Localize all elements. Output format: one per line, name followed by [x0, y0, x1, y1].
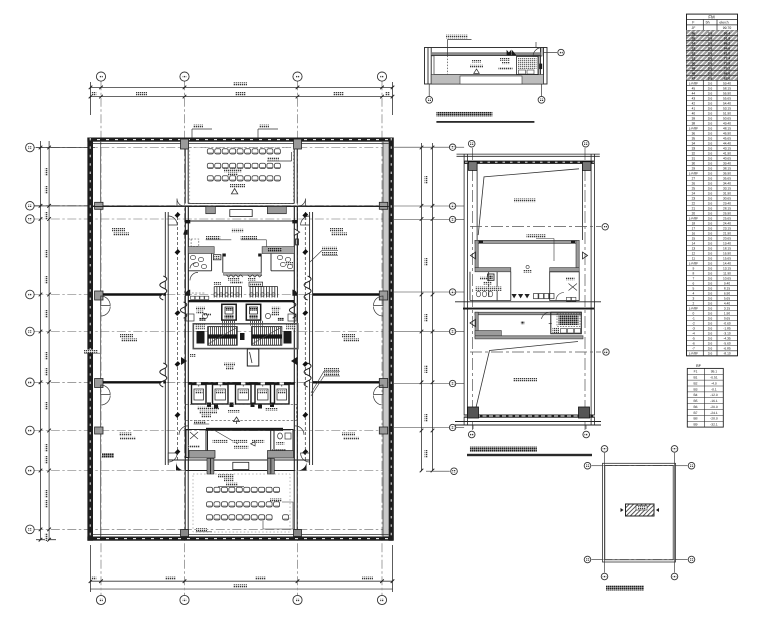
- svg-text:14: 14: [692, 242, 696, 246]
- svg-text:20.65: 20.65: [723, 237, 731, 241]
- toilet zone right room: [261, 254, 294, 273]
- leader label above wall 1: [191, 129, 193, 138]
- middle plan outer frame: [457, 154, 600, 425]
- bottom core center label3: [252, 439, 265, 442]
- svg-text:L-F/8F: L-F/8F: [689, 81, 698, 85]
- elevator lobby center shaft: [247, 349, 258, 366]
- svg-text:99.1: 99.1: [711, 370, 718, 374]
- office area label: [112, 228, 125, 231]
- svg-text:3.6: 3.6: [708, 227, 713, 231]
- svg-text:3.6: 3.6: [708, 121, 713, 125]
- svg-text:39.40: 39.40: [723, 161, 731, 165]
- grid bubble A-3 top: [293, 72, 302, 81]
- section3 small dark box: [488, 274, 494, 280]
- dark door pies flanking stalls: [185, 290, 190, 296]
- label with leader top right: [267, 157, 279, 160]
- wing door arcs upper: [168, 216, 309, 462]
- middle plan bubble bottom left: [468, 431, 475, 438]
- gray U-band left: [188, 247, 214, 254]
- door arc top-right plan: [533, 47, 542, 56]
- svg-text:9.40: 9.40: [724, 282, 730, 286]
- top-right plan top gray wall: [431, 52, 540, 56]
- section4 right detail room: [551, 312, 582, 334]
- section2 gray walls: [475, 240, 579, 272]
- svg-text:29.40: 29.40: [723, 201, 731, 205]
- small boxes row bottom-left: [191, 296, 209, 299]
- party wall right y294: [313, 293, 379, 295]
- svg-text:66.6: 66.6: [724, 72, 731, 76]
- middle plan bubble left: [449, 203, 455, 209]
- corridor label 1: [197, 407, 219, 410]
- svg-text:-6: -6: [692, 342, 695, 346]
- corridor label left: [213, 282, 221, 285]
- svg-text:3.6: 3.6: [708, 307, 713, 311]
- svg-text:-0.60: -0.60: [723, 322, 730, 326]
- svg-text:F1: F1: [694, 370, 698, 374]
- grid bubble B-2 left: [26, 202, 35, 211]
- stage screen rect: [230, 210, 252, 217]
- svg-text:39: 39: [692, 116, 696, 120]
- svg-text:3.6: 3.6: [708, 106, 713, 110]
- svg-text:47: 47: [692, 77, 696, 81]
- top-right bottom gray band: [431, 75, 543, 85]
- svg-text:44.40: 44.40: [723, 141, 731, 145]
- meeting room dashed ceiling rect: [190, 147, 293, 203]
- svg-text:16: 16: [692, 232, 696, 236]
- core wing wall right: [310, 212, 313, 465]
- elevator shaft 2: [213, 385, 229, 405]
- middle plan top columns: [469, 162, 478, 171]
- grid bubble B-7 left: [26, 426, 35, 435]
- svg-text:3.6: 3.6: [708, 81, 713, 85]
- svg-text:49: 49: [692, 67, 696, 71]
- vip room left label: [196, 307, 205, 310]
- section2 corner ticks: [479, 241, 575, 243]
- elevator lobby label line1: [224, 363, 235, 366]
- grid bubble B-6 left: [26, 378, 35, 387]
- svg-text:B9: B9: [693, 423, 697, 427]
- svg-text:3.6: 3.6: [708, 302, 713, 306]
- core boundary wall left: [185, 207, 188, 471]
- grid bubble B-1 left: [26, 143, 35, 152]
- svg-text:3.6: 3.6: [708, 42, 713, 46]
- svg-text:3.6: 3.6: [708, 131, 713, 135]
- svg-text:36.90: 36.90: [723, 171, 731, 175]
- meeting room top corner columns: [181, 139, 189, 149]
- core wing wall left: [165, 212, 168, 465]
- office area label: [119, 433, 132, 436]
- section3 bottom small boxes: [567, 297, 571, 301]
- svg-text:L-F/8F: L-F/8F: [689, 262, 698, 266]
- svg-text:-4.0: -4.0: [711, 381, 717, 385]
- svg-text:17: 17: [692, 227, 696, 231]
- svg-text:3.6: 3.6: [708, 136, 713, 140]
- door opening left wall upper: [101, 296, 111, 316]
- grid bubble B-9 left: [26, 525, 35, 534]
- svg-text:77.4: 77.4: [724, 57, 731, 61]
- svg-text:3.6: 3.6: [708, 101, 713, 105]
- svg-text:88.2: 88.2: [724, 42, 731, 46]
- pad side arrows: [621, 508, 624, 512]
- shaft box left: [222, 304, 236, 320]
- svg-text:56: 56: [692, 32, 696, 36]
- svg-text:3.6: 3.6: [708, 196, 713, 200]
- butterfly symbol: [507, 50, 517, 55]
- svg-text:42: 42: [692, 101, 696, 105]
- svg-text:3.6: 3.6: [708, 242, 713, 246]
- main plan vertical grid lines: [101, 81, 382, 595]
- right leader bubble: [544, 52, 558, 54]
- lobby band wall line: [93, 206, 389, 208]
- svg-text:3.6: 3.6: [708, 176, 713, 180]
- svg-text:25: 25: [692, 186, 696, 190]
- section3 left rooms: [470, 272, 511, 301]
- middle plan bubble top right: [582, 140, 589, 147]
- stair landing hatches: [221, 321, 236, 326]
- small label left lobby: [190, 354, 196, 357]
- svg-text:53.15: 53.15: [723, 106, 731, 110]
- svg-text:41: 41: [692, 106, 696, 110]
- middle plan bubble left: [449, 289, 455, 295]
- bottom-right plan bubble top right: [671, 446, 678, 453]
- office area label: [330, 228, 343, 231]
- main plan horizontal grid lines: [34, 148, 392, 530]
- washbasin box label right: [248, 278, 256, 281]
- svg-text:21.90: 21.90: [723, 232, 731, 236]
- corridor label with underline: [194, 421, 206, 424]
- top dim text 700 right: [385, 92, 390, 95]
- top-right plan inner room: [434, 56, 539, 75]
- svg-text:46.90: 46.90: [723, 131, 731, 135]
- lobby south gray band: [224, 273, 262, 276]
- middle plan bubble right y352: [603, 349, 609, 355]
- elevator shaft 3: [236, 385, 252, 405]
- svg-text:21: 21: [692, 206, 696, 210]
- svg-text:3.6: 3.6: [708, 287, 713, 291]
- bottom-right plan bubble left upper: [584, 462, 591, 469]
- svg-text:31.90: 31.90: [723, 191, 731, 195]
- grid bubble A-1 bottom: [96, 595, 105, 604]
- svg-text:45: 45: [692, 86, 696, 90]
- leader label right wall pair y370: [324, 368, 339, 371]
- break symbols wing walls: [160, 276, 311, 387]
- svg-text:40: 40: [692, 111, 696, 115]
- section4 room mark: [521, 321, 524, 324]
- title of middle plan: [470, 447, 537, 452]
- svg-text:49.40: 49.40: [723, 121, 731, 125]
- svg-text:3.6: 3.6: [708, 327, 713, 331]
- svg-text:B3: B3: [693, 387, 697, 391]
- section cut gray line y206: [34, 205, 392, 207]
- svg-text:B5: B5: [693, 399, 697, 403]
- svg-text:-6.85: -6.85: [723, 347, 730, 351]
- bottom core center room walls: [206, 430, 271, 459]
- svg-text:55: 55: [692, 37, 696, 41]
- grid bubble A-2 top: [180, 72, 189, 81]
- svg-text:43: 43: [692, 96, 696, 100]
- elevator row top wall: [188, 382, 294, 385]
- middle plan bottom double lines: [455, 422, 601, 426]
- bottom dimension lines: [91, 545, 393, 592]
- bottom core left label: [189, 445, 200, 448]
- svg-text:B7: B7: [693, 411, 697, 415]
- toilet zone left room: [188, 254, 223, 273]
- svg-text:10.65: 10.65: [723, 277, 731, 281]
- grid bubble A-4 top: [377, 72, 386, 81]
- door arc left toilet: [190, 272, 198, 280]
- left dimension rotated texts: [45, 168, 48, 176]
- bottom overall dim text 17100: [233, 584, 247, 587]
- bottom-right plan double square: [603, 463, 676, 562]
- bubble at end of inter-plan dim line: [426, 470, 450, 472]
- svg-text:3.6: 3.6: [708, 91, 713, 95]
- svg-text:48.15: 48.15: [723, 126, 731, 130]
- white door flag right of upper room: [294, 229, 299, 236]
- riser lines with diamonds: [178, 212, 306, 462]
- bottom core center label4: [234, 445, 249, 448]
- bottom-right plan bubble top left: [601, 446, 608, 453]
- svg-text:-1: -1: [692, 317, 695, 321]
- svg-text:24.40: 24.40: [723, 222, 731, 226]
- title of top-right plan: [436, 112, 492, 117]
- svg-text:-0.51: -0.51: [710, 376, 718, 380]
- svg-text:36: 36: [692, 131, 696, 135]
- staircase right: [252, 327, 282, 346]
- bottom room chairs: [207, 487, 280, 520]
- svg-text:91.8: 91.8: [724, 37, 731, 41]
- washbasin labels left: [228, 278, 240, 281]
- svg-text:3.6: 3.6: [708, 352, 713, 356]
- svg-text:40.65: 40.65: [723, 156, 731, 160]
- svg-text:14.40: 14.40: [723, 262, 731, 266]
- svg-text:38: 38: [692, 121, 696, 125]
- svg-text:3.6: 3.6: [708, 262, 713, 266]
- middle plan bubble left: [449, 144, 455, 150]
- svg-text:30: 30: [692, 161, 696, 165]
- top dimension lines: [91, 82, 393, 115]
- dark marks flanking stairs: [197, 331, 292, 344]
- svg-text:30.65: 30.65: [723, 196, 731, 200]
- svg-text:3.6: 3.6: [708, 201, 713, 205]
- svg-text:3.6: 3.6: [708, 151, 713, 155]
- svg-text:3.6: 3.6: [708, 211, 713, 215]
- top-right detail room: [517, 57, 539, 75]
- section3 center triangle marks: [512, 294, 530, 298]
- door opening right wall upper: [374, 296, 384, 316]
- svg-text:15: 15: [692, 237, 696, 241]
- svg-text:0: 0: [693, 312, 695, 316]
- svg-text:20: 20: [692, 211, 696, 215]
- main building top curtain wall: [87, 138, 392, 142]
- left dimension ticks: [39, 146, 51, 542]
- office area label: [120, 334, 133, 337]
- svg-text:L-F/8F: L-F/8F: [689, 126, 698, 130]
- svg-text:bh: bh: [706, 21, 710, 25]
- svg-text:-12.0: -12.0: [710, 393, 718, 397]
- svg-text:15.65: 15.65: [723, 257, 731, 261]
- svg-text:22: 22: [692, 201, 696, 205]
- section3 left labels: [480, 277, 488, 280]
- center room label: [494, 58, 496, 60]
- svg-text:13: 13: [692, 247, 696, 251]
- middle plan bubble left: [449, 328, 455, 334]
- door arcs at wings y428: [179, 426, 304, 435]
- svg-text:3.6: 3.6: [708, 72, 713, 76]
- leader label left in upper room: [206, 236, 221, 239]
- svg-text:3.6: 3.6: [708, 156, 713, 160]
- top dim text 700 left: [91, 92, 96, 95]
- middle plan bubble left: [449, 216, 455, 222]
- toilet left AD box: [213, 255, 221, 260]
- svg-text:3.6: 3.6: [708, 32, 713, 36]
- svg-text:3.6: 3.6: [708, 37, 713, 41]
- extension line above: [535, 42, 537, 48]
- svg-text:6.90: 6.90: [724, 292, 730, 296]
- corridor label walk: [228, 410, 240, 413]
- main building right curtain wall: [389, 138, 394, 541]
- grid bubble B-8 left: [26, 466, 35, 475]
- middle plan left bubbles: [394, 146, 449, 148]
- svg-text:B2: B2: [693, 381, 697, 385]
- office area label: [342, 334, 355, 337]
- toilet zone bottom dark band: [188, 300, 294, 302]
- core boundary wall right: [294, 207, 297, 471]
- small arrow symbol meeting room: [231, 189, 237, 194]
- svg-text:-7: -7: [692, 347, 695, 351]
- section2 door flaps: [471, 252, 476, 259]
- section2 center circle mark: [526, 265, 529, 268]
- lobby side door triangles: [181, 357, 187, 365]
- svg-text:81.0: 81.0: [724, 52, 731, 56]
- gray U-band right: [262, 247, 294, 254]
- svg-text:3.6: 3.6: [708, 116, 713, 120]
- svg-text:-3: -3: [692, 327, 695, 331]
- svg-text:3.6: 3.6: [708, 186, 713, 190]
- bottom core center room top dark wall: [206, 428, 283, 431]
- middle plan bubble left: [449, 424, 455, 430]
- svg-text:3.6: 3.6: [708, 217, 713, 221]
- svg-text:3.6: 3.6: [708, 342, 713, 346]
- svg-text:11: 11: [692, 257, 696, 261]
- svg-text:5.65: 5.65: [724, 297, 730, 301]
- svg-text:3.6: 3.6: [708, 86, 713, 90]
- leader label left wall y352: [84, 350, 98, 353]
- bottom core right label: [276, 442, 284, 445]
- svg-text:32: 32: [692, 151, 696, 155]
- svg-text:18.15: 18.15: [723, 247, 731, 251]
- svg-text:8: 8: [693, 272, 695, 276]
- elevator shaft 1: [192, 385, 207, 405]
- svg-text:38.15: 38.15: [723, 166, 731, 170]
- corridor label right: [265, 408, 278, 411]
- middle plan bottom columns: [468, 407, 479, 418]
- svg-text:3.6: 3.6: [708, 292, 713, 296]
- svg-text:3.6: 3.6: [708, 181, 713, 185]
- grid bubble B-5 left: [26, 327, 35, 336]
- svg-text:70.2: 70.2: [724, 67, 731, 71]
- corridor dashed band: [186, 404, 297, 420]
- stair block left of stage: [206, 207, 216, 214]
- stage band lines: [168, 460, 310, 471]
- label inside top-right room: [500, 58, 510, 61]
- svg-text:3.6: 3.6: [708, 312, 713, 316]
- svg-text:25.65: 25.65: [723, 217, 731, 221]
- elevator lobby label line2: [226, 367, 234, 370]
- svg-text:55.65: 55.65: [723, 96, 731, 100]
- break symbols core walls y310: [180, 302, 295, 318]
- leader label right in upper room: [241, 236, 257, 239]
- svg-text:3.6: 3.6: [708, 191, 713, 195]
- party wall left y382: [103, 381, 166, 383]
- core upper room label: [231, 229, 243, 232]
- svg-text:29: 29: [692, 166, 696, 170]
- stall comb left: [214, 287, 241, 298]
- bottom bubbles top-right plan: [428, 84, 430, 96]
- bottom-right plan bubble right lower: [688, 556, 695, 563]
- svg-text:27: 27: [692, 176, 696, 180]
- svg-text:-5: -5: [692, 337, 695, 341]
- staircase left: [208, 327, 238, 346]
- svg-text:L-F/8F: L-F/8F: [689, 171, 698, 175]
- meeting room label line1: [224, 169, 242, 172]
- middle plan bubble right y226: [602, 224, 608, 230]
- svg-text:B8: B8: [693, 417, 697, 421]
- separator thick dark line: [463, 308, 594, 310]
- meeting room bottom line: [188, 203, 294, 205]
- stage screen rect bottom: [233, 462, 249, 469]
- bottom-right plan bubble left lower: [584, 556, 591, 563]
- top overall dim text 17100: [233, 82, 247, 85]
- svg-text:3.6: 3.6: [708, 337, 713, 341]
- svg-text:73.8: 73.8: [724, 62, 731, 66]
- svg-text:45.65: 45.65: [723, 136, 731, 140]
- leader label right wall pair y250: [322, 247, 337, 250]
- middle plan grid line y352: [470, 351, 601, 353]
- grid bubble A-3 bottom: [293, 595, 302, 604]
- small table lower: [687, 368, 723, 427]
- svg-text:1.90: 1.90: [724, 312, 730, 316]
- svg-text:53: 53: [692, 47, 696, 51]
- svg-text:3.6: 3.6: [708, 332, 713, 336]
- inner face lines: [93, 142, 389, 537]
- bottom core center label1: [213, 439, 228, 442]
- washbasin scallop row left: [226, 275, 243, 277]
- toilet right label: [285, 262, 293, 265]
- svg-text:63.0: 63.0: [724, 77, 731, 81]
- table first data row: [692, 26, 732, 30]
- svg-text:9: 9: [693, 267, 695, 271]
- top-right plan outer frame: [425, 48, 548, 85]
- bottom dim text 7440: [165, 577, 176, 580]
- leader label top-right plan: [447, 40, 449, 56]
- dark knots at center top: [223, 254, 226, 257]
- svg-text:5: 5: [693, 287, 695, 291]
- section4 door arc: [542, 312, 551, 319]
- svg-text:16.90: 16.90: [723, 252, 731, 256]
- svg-text:3.6: 3.6: [708, 247, 713, 251]
- svg-text:elev.h: elev.h: [719, 21, 728, 25]
- bottom dim text 7700: [362, 577, 373, 580]
- svg-text:3.6: 3.6: [708, 126, 713, 130]
- door arc left lobby: [177, 199, 185, 207]
- bottom room corner columns: [181, 530, 189, 537]
- section4 left flag: [470, 319, 476, 326]
- middle plan bottom bubbles: [472, 425, 474, 429]
- separator thin line: [455, 301, 601, 303]
- main building bottom curtain wall: [87, 537, 392, 541]
- bottom room dashed ceiling rect: [193, 474, 290, 532]
- svg-text:3.6: 3.6: [708, 237, 713, 241]
